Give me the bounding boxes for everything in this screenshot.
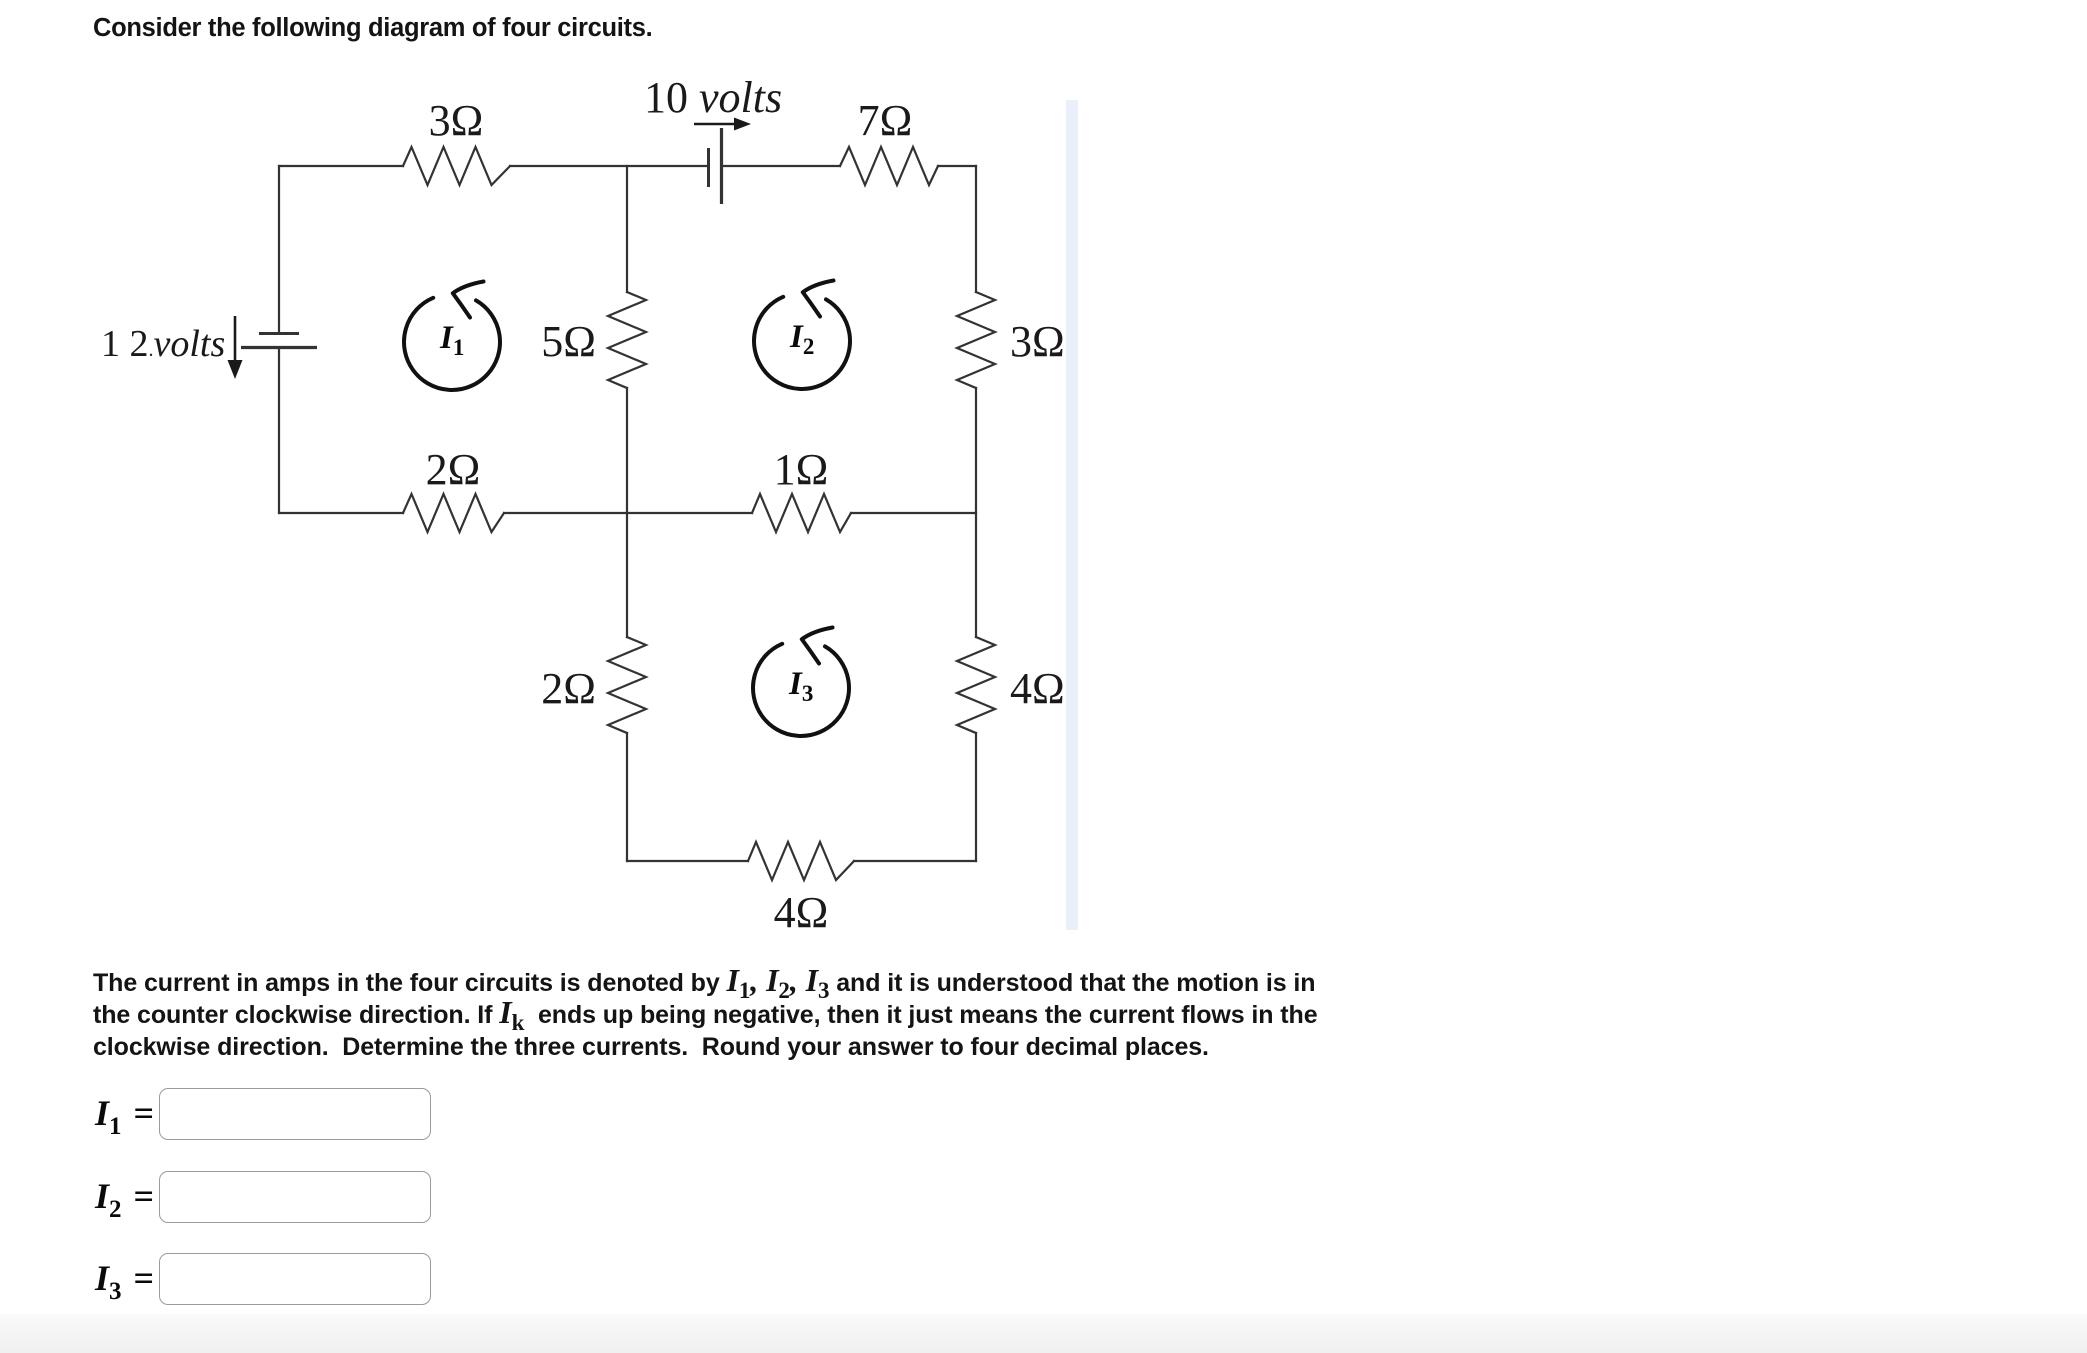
svg-text:I2: I2 xyxy=(789,319,814,359)
svg-text:I3: I3 xyxy=(788,666,813,706)
svg-text:7Ω: 7Ω xyxy=(858,96,913,145)
svg-text:4Ω: 4Ω xyxy=(774,888,829,937)
svg-text:I1: I1 xyxy=(439,320,464,360)
svg-text:10 volts: 10 volts xyxy=(644,73,782,122)
svg-text:3Ω: 3Ω xyxy=(1010,317,1065,366)
svg-text:4Ω: 4Ω xyxy=(1010,664,1065,713)
svg-text:1Ω: 1Ω xyxy=(774,445,829,494)
svg-text:5Ω: 5Ω xyxy=(541,317,596,366)
svg-text:1 2.volts: 1 2.volts xyxy=(101,323,225,365)
svg-text:3Ω: 3Ω xyxy=(429,96,484,145)
svg-text:2Ω: 2Ω xyxy=(426,445,481,494)
svg-text:2Ω: 2Ω xyxy=(541,664,596,713)
